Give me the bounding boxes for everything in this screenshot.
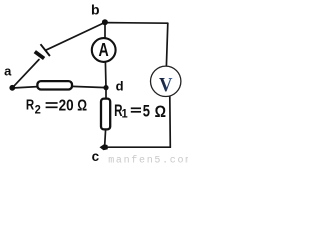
svg-text:Ω: Ω xyxy=(155,102,166,121)
svg-text:2: 2 xyxy=(35,103,41,117)
svg-text:c: c xyxy=(92,149,100,164)
svg-text:A: A xyxy=(99,40,109,60)
svg-text:b: b xyxy=(91,1,100,17)
svg-text:Ω: Ω xyxy=(77,98,87,115)
svg-text:a: a xyxy=(4,63,12,78)
svg-text:R: R xyxy=(26,97,34,114)
svg-text:5: 5 xyxy=(143,101,150,120)
svg-text:d: d xyxy=(116,78,124,93)
svg-text:20: 20 xyxy=(59,98,74,115)
svg-text:manfen5.com: manfen5.com xyxy=(108,155,188,165)
svg-text:V: V xyxy=(159,74,173,96)
svg-text:1: 1 xyxy=(122,107,128,121)
